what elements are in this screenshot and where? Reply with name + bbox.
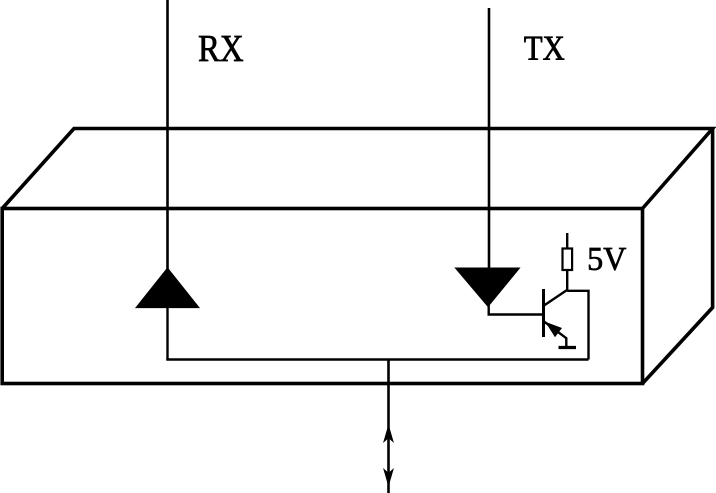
wire collector node to resistor (566, 270, 568, 291)
ground (559, 346, 577, 349)
wire resistor to 5V supply (566, 233, 568, 249)
enclosure box right side face (643, 129, 713, 384)
enclosure box top face (2, 129, 712, 209)
transistor Q1 emitter with PNP arrow (544, 322, 566, 339)
bidirectional output line (387, 360, 390, 493)
wire bottom bus (166, 358, 588, 360)
RX receive arrow (136, 268, 199, 308)
output arrowhead up (384, 426, 393, 442)
enclosure box front face (2, 209, 642, 384)
wire collector node to right drop (567, 291, 588, 360)
wire RX arrow to bottom bus (166, 306, 168, 360)
label TX (524, 37, 564, 60)
label RX (199, 36, 243, 61)
RX input line (166, 0, 169, 270)
TX transmit arrow (455, 268, 519, 307)
label 5V (589, 248, 626, 270)
transistor Q1 base bar (542, 289, 545, 337)
resistor R1 (563, 249, 573, 271)
output arrowhead down (384, 470, 393, 486)
wire emitter to ground (565, 338, 567, 348)
wire TX arrow to transistor base (489, 305, 544, 315)
TX input line (488, 8, 491, 269)
transistor Q1 collector (544, 290, 567, 306)
